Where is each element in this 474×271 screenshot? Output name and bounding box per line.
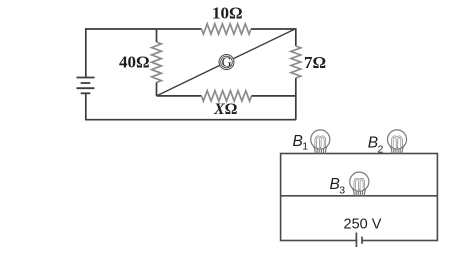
wire 40Ω branch bottom [156, 83, 158, 96]
bulb B2 [387, 130, 406, 154]
wire top of bridge (right segment) [251, 28, 296, 30]
bulb B1 [311, 130, 330, 154]
battery 250 V (gap in bottom wire) [357, 239, 361, 243]
svg-text:1: 1 [302, 141, 308, 153]
svg-text:7Ω: 7Ω [304, 53, 326, 72]
wire middle branch [281, 195, 438, 197]
wire 40Ω branch top [156, 29, 158, 42]
svg-text:G: G [222, 55, 232, 70]
wire bottom of bridge [85, 119, 296, 121]
wire XΩ branch (right segment) [252, 95, 296, 97]
resistor 7Ω [291, 46, 301, 78]
resistor 40Ω [152, 42, 162, 83]
bulb B3 [350, 172, 369, 196]
bulb circuit outer rectangle [281, 154, 438, 241]
wire left of bridge (bottom segment) [85, 93, 87, 119]
wire right of bridge (bottom segment) [295, 78, 297, 120]
resistor XΩ [202, 91, 252, 101]
wire XΩ branch (left segment) [157, 95, 202, 97]
svg-text:2: 2 [378, 143, 384, 155]
resistor 10Ω [202, 24, 252, 34]
svg-text:10Ω: 10Ω [212, 3, 243, 22]
svg-text:40Ω: 40Ω [119, 52, 150, 71]
svg-text:XΩ: XΩ [213, 101, 238, 118]
wire galvanometer diagonal (upper-right segment) [233, 29, 296, 59]
battery (bridge cell) [77, 78, 95, 94]
wire top of bridge (left segment) [85, 28, 202, 30]
galvanometer G [219, 55, 234, 70]
svg-text:250 V: 250 V [344, 217, 382, 233]
svg-text:3: 3 [339, 185, 345, 197]
wire galvanometer diagonal (lower-left segment) [157, 65, 221, 96]
wire left of bridge (top segment, to battery) [85, 28, 87, 77]
wire right of bridge (top segment) [295, 28, 297, 46]
